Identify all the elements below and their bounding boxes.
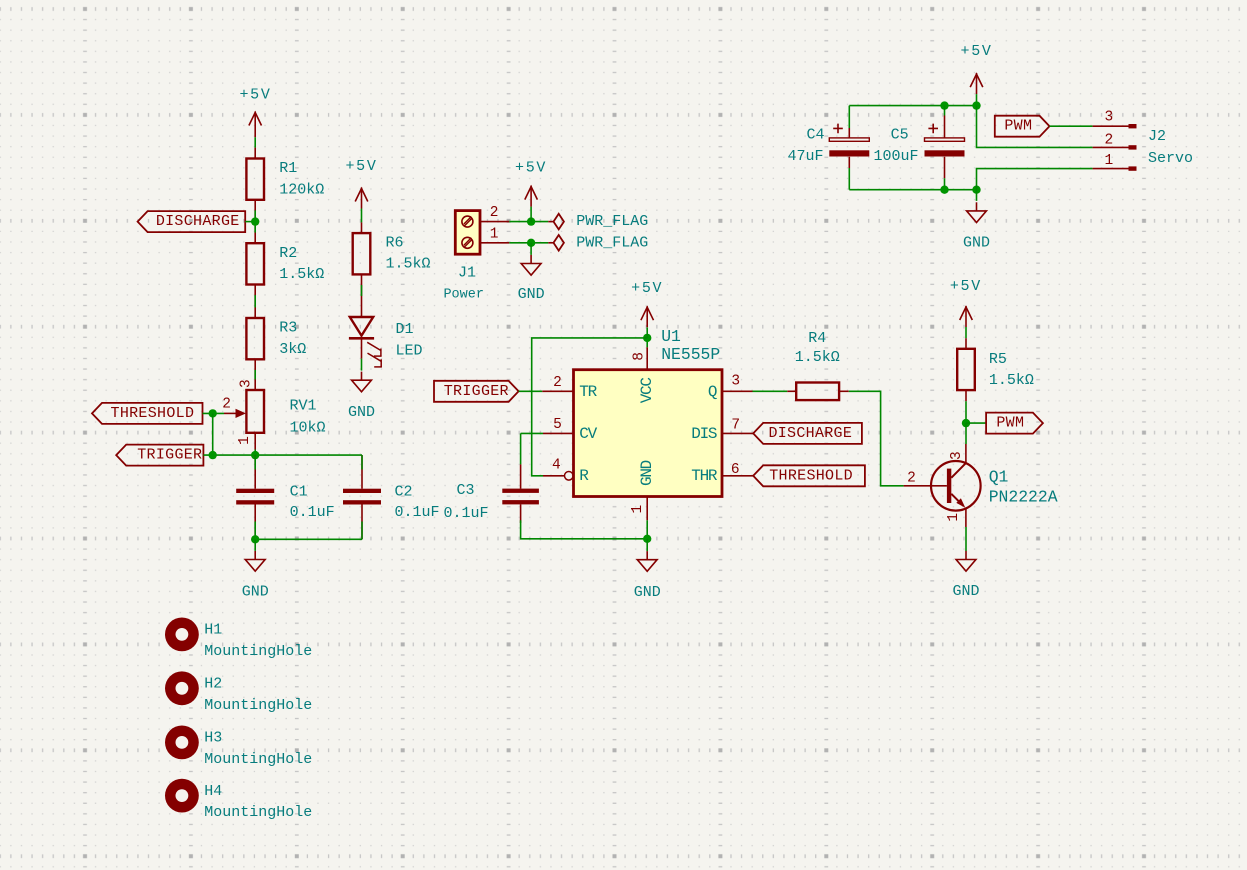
svg-text:3: 3: [731, 374, 740, 390]
svg-text:8: 8: [631, 352, 647, 361]
ground (J1): [521, 255, 541, 275]
svg-text:+5V: +5V: [239, 87, 271, 104]
wire J1 pin1 stub: [480, 242, 509, 244]
svg-text:R6: R6: [386, 234, 404, 251]
svg-text:0.1uF: 0.1uF: [290, 504, 335, 521]
svg-text:H2: H2: [204, 676, 222, 693]
svg-text:1: 1: [946, 513, 962, 522]
svg-text:TRIGGER: TRIGGER: [444, 383, 509, 400]
junction C5 bottom: [940, 186, 948, 194]
op-amp/timer U1 NE555P body: [574, 370, 723, 497]
wire +5V to reset pin4: [532, 338, 648, 476]
ground (C1): [245, 551, 265, 571]
svg-text:1.5kΩ: 1.5kΩ: [386, 256, 431, 273]
power +5V (R1): [249, 112, 262, 138]
connector J2 pin 1: [1093, 166, 1137, 170]
connector J2 pin 2: [1093, 145, 1137, 149]
wire R1-R2 net DISCHARGE: [254, 210, 256, 232]
junction +5V node top right: [972, 101, 980, 109]
svg-text:R5: R5: [989, 351, 1007, 368]
wire J1 pin2 to +5V: [509, 221, 548, 223]
resistor R6: [353, 233, 371, 274]
wire R5 to PWM node: [965, 401, 967, 423]
svg-text:LED: LED: [396, 343, 423, 360]
wire R5 top pin: [965, 338, 967, 349]
wire C5 bottom lead: [944, 157, 946, 179]
wire C2 top lead: [361, 455, 363, 489]
LED D1: [349, 317, 382, 367]
svg-text:R3: R3: [279, 320, 297, 337]
svg-text:2: 2: [907, 470, 916, 486]
svg-text:C5: C5: [891, 127, 909, 144]
svg-text:120kΩ: 120kΩ: [279, 181, 324, 198]
svg-text:MountingHole: MountingHole: [204, 643, 312, 660]
wire U1 THR pin6 stub: [722, 475, 753, 477]
wire down to GND symbol: [530, 243, 532, 255]
svg-text:2: 2: [222, 397, 231, 413]
svg-text:TR: TR: [579, 383, 597, 401]
wire C1 top lead: [254, 455, 256, 489]
svg-text:Power: Power: [443, 287, 484, 302]
transistor Q1: [904, 444, 981, 527]
wire RV1 to TRIGGER: [254, 450, 256, 456]
wire THRESHOLD-TRIGGER vertical: [212, 413, 214, 455]
wire R4 right pin: [839, 390, 849, 392]
wire U1 GND pin1: [646, 497, 648, 521]
svg-text:6: 6: [731, 462, 740, 478]
svg-text:DIS: DIS: [691, 425, 717, 443]
svg-text:R4: R4: [808, 330, 826, 347]
wire C3 top lead: [520, 464, 522, 488]
wire R1 top pin: [254, 148, 256, 159]
svg-text:0.1uF: 0.1uF: [395, 504, 440, 521]
svg-text:RV1: RV1: [290, 398, 317, 415]
resistor R5: [957, 349, 975, 390]
junction GND node top right: [972, 186, 980, 194]
global label DISCHARGE (left): [138, 211, 246, 232]
potentiometer RV1: [224, 390, 264, 433]
svg-text:GND: GND: [634, 584, 661, 601]
resistor R1: [246, 159, 264, 200]
wire Q to R4: [753, 390, 788, 392]
svg-text:R1: R1: [279, 160, 297, 177]
wire C5 top lead: [944, 116, 946, 138]
svg-text:3kΩ: 3kΩ: [279, 341, 306, 358]
wire J1 pin1 to GND: [509, 242, 548, 244]
wire J2 pin1 to GND: [977, 169, 1093, 190]
svg-text:U1: U1: [661, 327, 681, 346]
wire to GND symbol: [254, 539, 256, 551]
svg-text:+5V: +5V: [950, 278, 982, 295]
svg-text:+5V: +5V: [345, 158, 377, 175]
wire C2 to GND rail: [361, 522, 363, 540]
wire R6-D1: [361, 285, 363, 296]
wire TRIGGER to C2: [361, 455, 363, 469]
wire R2 to R3: [254, 285, 256, 319]
wire CV: [521, 432, 543, 434]
power flag PWR_FLAG: [548, 235, 564, 251]
mounting hole H4: [165, 779, 199, 813]
svg-text:H3: H3: [204, 730, 222, 747]
ground (D1): [352, 372, 372, 392]
wire C3 to GND rail: [521, 520, 648, 539]
wire C1 to GND rail: [254, 522, 256, 540]
svg-text:C3: C3: [456, 482, 474, 499]
svg-text:+5V: +5V: [631, 280, 663, 297]
svg-text:10kΩ: 10kΩ: [290, 420, 326, 437]
wire TRIGGER to C1: [254, 455, 256, 469]
svg-text:3: 3: [1105, 110, 1114, 126]
connector J1 (screw terminal): [455, 211, 480, 255]
wire U1 DIS pin7 stub: [722, 432, 753, 434]
svg-text:1.5kΩ: 1.5kΩ: [989, 372, 1034, 389]
svg-text:Q1: Q1: [989, 468, 1009, 487]
wire C1 bottom lead: [254, 505, 256, 540]
svg-text:+5V: +5V: [961, 43, 993, 60]
wire +5V rail to C4: [848, 106, 850, 128]
svg-text:PN2222A: PN2222A: [989, 488, 1058, 507]
wire C4 top lead: [848, 128, 850, 138]
global label TRIGGER (U1): [434, 381, 519, 402]
inversion bubble U1 pin4: [565, 472, 574, 481]
global label THRESHOLD (U1): [753, 465, 865, 486]
resistor R2: [246, 243, 264, 284]
wire U1 TR pin2 stub: [542, 390, 573, 392]
wire U1 CV pin5 stub: [543, 432, 574, 434]
global label DISCHARGE (U1): [753, 423, 862, 444]
wire +5V stem: [646, 327, 648, 338]
wire to PWM label: [966, 422, 986, 424]
svg-text:DISCHARGE: DISCHARGE: [156, 213, 240, 230]
wire THRESHOLD to RV1 wiper: [203, 412, 225, 414]
svg-text:PWR_FLAG: PWR_FLAG: [576, 234, 648, 251]
wire to GND symbol: [646, 539, 648, 551]
wire R1 to R2: [254, 200, 256, 243]
wire R4 to Q1 base: [849, 391, 904, 486]
wire +5V stem to node: [976, 94, 978, 106]
junction U1 +5V node: [643, 334, 651, 342]
wire +5V rail top: [849, 105, 976, 107]
svg-text:5: 5: [553, 417, 562, 433]
junction TRIGGER node B: [251, 451, 259, 459]
svg-text:H1: H1: [204, 622, 222, 639]
global label THRESHOLD (left): [92, 403, 203, 424]
svg-text:DISCHARGE: DISCHARGE: [768, 425, 852, 442]
svg-text:D1: D1: [396, 321, 414, 338]
svg-text:CV: CV: [579, 425, 597, 443]
wire PWM node to Q1 collector: [965, 423, 967, 444]
wire DISCHARGE label to junction: [245, 221, 255, 223]
power +5V (U1): [641, 306, 654, 327]
mounting hole H3: [165, 726, 199, 760]
svg-text:GND: GND: [518, 286, 545, 303]
junction DISCHARGE node: [251, 217, 259, 225]
svg-text:THRESHOLD: THRESHOLD: [111, 405, 195, 422]
ground (Q1): [956, 551, 976, 571]
wire R5 bottom pin: [965, 390, 967, 401]
svg-text:R2: R2: [279, 245, 297, 262]
wire C4 bottom lead: [848, 157, 850, 168]
svg-text:+5V: +5V: [515, 159, 547, 176]
wire C3 bottom lead: [520, 504, 522, 523]
global label PWM (J2): [995, 116, 1050, 137]
svg-text:1.5kΩ: 1.5kΩ: [795, 349, 840, 366]
wire C2 bottom lead: [361, 505, 363, 540]
junction THRESHOLD node: [209, 409, 217, 417]
svg-text:GND: GND: [348, 404, 375, 421]
wire GND rail top right: [849, 189, 976, 191]
junction U1 GND node: [643, 535, 651, 543]
svg-text:GND: GND: [638, 460, 656, 486]
svg-text:PWM: PWM: [1004, 118, 1032, 135]
junction J1 +5V node: [527, 217, 535, 225]
svg-text:MountingHole: MountingHole: [204, 804, 312, 821]
junction C1 GND node: [251, 535, 259, 543]
wire up to +5V symbol: [530, 207, 532, 222]
wire RV1 pin1: [254, 433, 256, 450]
wire to GND symbol: [976, 190, 978, 201]
svg-text:1: 1: [630, 505, 646, 514]
mounting hole H2: [165, 671, 199, 705]
svg-text:0.1uF: 0.1uF: [443, 505, 488, 522]
svg-text:MountingHole: MountingHole: [204, 697, 312, 714]
junction PWM node: [962, 419, 970, 427]
svg-text:2: 2: [1105, 133, 1114, 149]
power +5V (Q1): [960, 306, 973, 327]
global label TRIGGER (left): [116, 445, 203, 466]
wire VCC pin to +5V node: [646, 338, 648, 347]
svg-text:J1: J1: [458, 265, 476, 282]
wire R6 top pin: [361, 222, 363, 233]
svg-text:1: 1: [1105, 153, 1114, 169]
svg-text:C1: C1: [290, 484, 308, 501]
capacitor C4 (polarized): [829, 124, 869, 157]
connector J2 pin 3: [1093, 124, 1137, 128]
wire GND rail C1-C2: [255, 538, 362, 540]
svg-text:PWM: PWM: [996, 415, 1024, 432]
capacitor C2: [343, 489, 381, 505]
svg-text:GND: GND: [963, 234, 990, 251]
wire +5V to J2 pin2: [977, 106, 1093, 148]
resistor R3: [246, 318, 264, 359]
resistor R4: [796, 383, 839, 401]
svg-text:Q: Q: [708, 383, 717, 401]
wire C5 to GND rail: [944, 178, 946, 189]
svg-text:THRESHOLD: THRESHOLD: [769, 467, 853, 484]
power +5V (top right): [970, 73, 983, 94]
svg-text:VCC: VCC: [638, 378, 656, 404]
ground (U1): [637, 551, 657, 571]
wire +5V to R1: [254, 137, 256, 147]
junction C5 top: [940, 101, 948, 109]
wire PWM to J2 pin3: [1050, 125, 1093, 127]
power +5V (R6): [355, 188, 368, 209]
svg-text:3: 3: [949, 451, 965, 460]
wire U1 VCC pin8: [646, 347, 648, 370]
wire CV to C3: [520, 433, 522, 464]
svg-text:MountingHole: MountingHole: [204, 751, 312, 768]
mounting hole H1: [165, 618, 199, 652]
svg-text:1.5kΩ: 1.5kΩ: [279, 266, 324, 283]
junction J1 GND node: [527, 239, 535, 247]
capacitor C5 (polarized): [925, 124, 965, 157]
svg-text:100uF: 100uF: [873, 148, 918, 165]
svg-text:1: 1: [237, 436, 253, 445]
wire C4 to GND rail: [848, 168, 850, 190]
wire C5 to +5V rail: [944, 106, 946, 116]
svg-text:1: 1: [490, 227, 499, 243]
svg-text:TRIGGER: TRIGGER: [137, 447, 202, 464]
svg-text:4: 4: [552, 457, 561, 473]
global label PWM (Q1): [986, 413, 1043, 434]
capacitor C3: [502, 489, 539, 505]
wire R4 left pin: [787, 390, 796, 392]
wire GND pin to rail: [646, 520, 648, 539]
wire +5V to R5: [965, 327, 967, 338]
svg-text:Servo: Servo: [1148, 150, 1193, 167]
wire R3-RV1: [254, 370, 256, 380]
svg-text:C2: C2: [395, 484, 413, 501]
svg-text:2: 2: [490, 205, 499, 221]
svg-text:C4: C4: [806, 127, 824, 144]
svg-text:NE555P: NE555P: [661, 345, 720, 364]
svg-text:GND: GND: [242, 584, 269, 601]
power +5V (J1): [525, 186, 538, 207]
svg-text:H4: H4: [204, 783, 222, 800]
wire R2-R3: [254, 295, 256, 307]
wire U1 R pin4 stub: [543, 475, 564, 477]
wire R6 to D1: [361, 274, 363, 317]
svg-text:47uF: 47uF: [787, 148, 823, 165]
wire U1 Q pin3 stub: [722, 390, 753, 392]
svg-text:GND: GND: [952, 583, 979, 600]
svg-text:2: 2: [553, 375, 562, 391]
junction TRIGGER node A: [209, 451, 217, 459]
wire Q1 emitter to GND: [965, 527, 967, 551]
svg-text:3: 3: [238, 379, 254, 388]
power flag PWR_FLAG: [548, 214, 564, 230]
wire TRIGGER to pin2: [519, 390, 543, 392]
ground (top right): [967, 202, 987, 222]
wire +5V to R6: [361, 209, 363, 223]
wire D1 to GND: [361, 359, 363, 371]
svg-text:J2: J2: [1148, 128, 1166, 145]
svg-text:7: 7: [731, 417, 740, 433]
svg-text:THR: THR: [691, 467, 718, 485]
wire D1 cathode lead: [361, 338, 363, 358]
svg-text:PWR_FLAG: PWR_FLAG: [576, 213, 648, 230]
capacitor C1: [236, 489, 274, 505]
wire R3 to RV1: [254, 359, 256, 390]
wire TRIGGER horizontal: [203, 454, 362, 456]
wire J1 pin2 stub: [480, 221, 509, 223]
